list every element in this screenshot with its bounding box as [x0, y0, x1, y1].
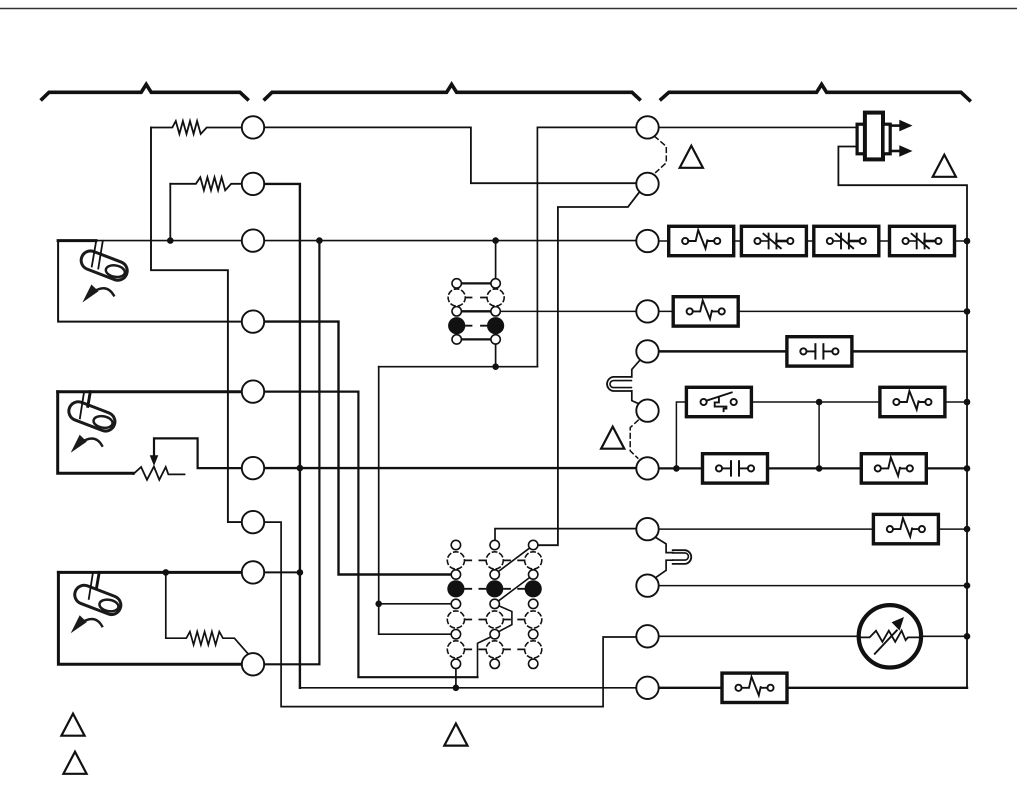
- row R3: NC contact box 4: [890, 226, 955, 255]
- mercury switch 3 rotation arrow: [71, 615, 102, 633]
- node: right bus row R9: [964, 582, 971, 589]
- plug arrow 1: [890, 124, 900, 127]
- wire: thermostat loop 2 left/bottom: [58, 392, 134, 474]
- plug connector left blade: [857, 124, 865, 154]
- wire: terminal 5 riser down around to relay grid 2: [264, 392, 477, 678]
- wire: terminal 2 riser down to common bottom row: [264, 184, 300, 688]
- wire: row R net to terminal 3: [96, 240, 242, 242]
- mercury switch 3 capsule: [72, 583, 124, 618]
- terminal R5: [636, 340, 658, 362]
- wire: terminal 7 to terminal R10 (bottom route): [264, 522, 636, 707]
- lamp 1 wire from terminal R5: [632, 360, 641, 405]
- wire: row Y terminal 6 to terminal R7: [264, 467, 636, 469]
- brace 1: [42, 84, 248, 99]
- node: right bus row R3: [964, 238, 971, 245]
- row R3: NC contact box 2: [741, 226, 806, 255]
- terminal 2: [242, 173, 264, 195]
- grid1 mid bar: [461, 310, 491, 312]
- wiper wire to terminal 6: [154, 438, 241, 468]
- row R7: heater box: [861, 454, 926, 483]
- mercury switch 1 electrodes: [92, 241, 103, 269]
- page top rule: [0, 8, 1017, 10]
- node: mid branch row R7: [816, 465, 823, 472]
- row R8: heater box: [873, 514, 938, 543]
- lamp 1 (indicator light): [607, 377, 631, 391]
- grid1 drop from row R: [495, 241, 497, 279]
- row R6: heater box right: [880, 387, 945, 416]
- row R8 wire: [659, 528, 967, 530]
- lamp 2 wire from terminal R8: [656, 537, 673, 577]
- wire: terminal 1 to right column (row W): [264, 127, 636, 183]
- mercury switch 2 capsule: [66, 399, 118, 434]
- node: right bus row R6: [964, 399, 971, 406]
- resistor R3 branch with diagonal to terminal 9: [166, 572, 248, 653]
- terminal R4: [636, 300, 658, 322]
- row R3: heater box: [669, 226, 734, 255]
- row R3: NC contact box 3: [814, 226, 879, 255]
- callout triangle 3: [601, 427, 624, 449]
- terminal R10: [636, 625, 658, 647]
- callout triangle 6: [444, 724, 467, 746]
- terminal 6: [242, 457, 264, 479]
- row R6 wires and switch box: [676, 402, 967, 468]
- callout triangle 1 (top right): [933, 155, 956, 177]
- grid1 bottom drop to bus: [495, 344, 497, 367]
- node: switch3 resistor tap: [163, 569, 170, 576]
- row R11 wire: [659, 687, 967, 689]
- grid2 actuator dashes row3: [465, 619, 524, 621]
- dashed option arc R6-R7: [630, 420, 638, 458]
- wire: thermostat loop 1 (left vertical + bottom to terminal 4): [58, 241, 242, 322]
- grid1 open contacts: [448, 289, 465, 306]
- wire: switch3 top to terminal 8: [58, 571, 241, 574]
- grid1 left pins: [452, 279, 461, 288]
- terminal R7: [636, 457, 658, 479]
- wire: grid2 linkage riser: [478, 637, 491, 677]
- wire: thermostat loop 2 top: [58, 390, 242, 393]
- grid2 actuator dashes row4: [465, 648, 524, 650]
- node: right bus row R10: [964, 633, 971, 640]
- row R5: capacitor contact box: [787, 337, 852, 366]
- mercury switch 2 electrodes: [80, 392, 84, 418]
- wire row R3 segments: [659, 240, 967, 242]
- node: common riser x terminal 8: [297, 569, 304, 576]
- node: common riser x row Y: [297, 465, 304, 472]
- callout triangle 2: [680, 146, 703, 168]
- terminal 5: [242, 380, 264, 402]
- grid2 actuator dashes row2: [465, 588, 524, 590]
- grid2 open contacts row3: [447, 611, 464, 628]
- row R7 wires: [659, 467, 967, 469]
- wire: switch1 top segment (thick part): [58, 239, 96, 242]
- grid1 closed contacts: [448, 317, 465, 334]
- callout triangle 5: [63, 752, 86, 774]
- brace 2: [265, 84, 640, 99]
- node: right bus row R4: [964, 308, 971, 315]
- terminal 4: [242, 310, 264, 332]
- rheostat arrow: [875, 630, 897, 653]
- grid2 left bottom drop: [455, 669, 457, 688]
- wire: terminal 9 riser to row R: [264, 241, 320, 665]
- grid1 actuator dashes: [466, 298, 487, 326]
- terminal 8: [242, 561, 264, 583]
- wire: R1 left drop to bus: [151, 128, 241, 523]
- rheostat internal resistor: [859, 631, 921, 642]
- wire: thermostat loop 3: [58, 572, 241, 664]
- node: R2 anticipator junction: [167, 237, 174, 244]
- terminal 1: [242, 116, 264, 138]
- wire: terminal R1 to plug: [659, 126, 859, 128]
- potentiometer (adjustable anticipator): [133, 467, 184, 480]
- rheostat (motor) circle: [859, 605, 921, 667]
- mercury switch 2 rotation arrow: [71, 435, 102, 453]
- terminal R3: [636, 230, 658, 252]
- wire: R2 drop to row R: [169, 184, 171, 241]
- mercury switch 3 electrodes: [89, 573, 93, 599]
- terminal R1: [636, 116, 658, 138]
- terminal 9: [242, 653, 264, 675]
- grid1 bottom bar: [461, 338, 491, 340]
- wire: terminal R2 chain down to grid2 right-top: [538, 192, 640, 545]
- row R11: heater box: [722, 673, 787, 702]
- node: right bus row R7: [964, 465, 971, 472]
- terminal R8: [636, 518, 658, 540]
- lamp 2 (indicator light): [673, 550, 692, 564]
- mercury switch 1 rotation arrow: [82, 285, 113, 303]
- dashed option arc R1-R2: [655, 136, 667, 172]
- node: grid1 bus: [492, 363, 499, 370]
- wire: grid1 bus across: [379, 366, 538, 368]
- switch box (system sw): [686, 387, 751, 416]
- plug connector body: [865, 113, 883, 160]
- terminal R9: [636, 574, 658, 596]
- terminal 3: [242, 229, 264, 251]
- grid2 column B pins: [490, 540, 499, 549]
- brace 3: [661, 84, 969, 100]
- terminal R11: [636, 677, 658, 699]
- row R5 wire: [659, 350, 966, 353]
- wiper arrowhead: [150, 455, 159, 466]
- row R10 wire: [659, 635, 967, 637]
- node: terminal9 riser on row R: [316, 237, 323, 244]
- terminal R6: [636, 399, 658, 421]
- wire: common bottom row to terminal R11: [300, 687, 636, 689]
- row R4 wire: [659, 310, 967, 312]
- wire: terminal 8 stub to common riser: [264, 571, 300, 573]
- wire: row from terminal 3 to terminal R3: [264, 240, 636, 242]
- wire: terminal 4 riser down to relay grid 2: [264, 322, 451, 575]
- node: grid2 bottom pin on common row: [453, 685, 460, 692]
- grid2 column A pins: [451, 540, 460, 549]
- grid1 right pins: [491, 279, 500, 288]
- row R9 wire: [659, 585, 967, 587]
- grid2 open contacts row4: [447, 641, 464, 658]
- grid2 column C pins: [529, 540, 538, 549]
- grid2 actuator dashes row1: [465, 559, 524, 561]
- terminal 7: [242, 511, 264, 533]
- grid1 top bar: [461, 282, 491, 284]
- node: right bus row R8: [964, 526, 971, 533]
- grid2 linkage zigzag: [499, 606, 512, 632]
- wire: bus drop to grid2 pins: [379, 367, 451, 635]
- wire: riser from W row to grid1 bus: [537, 127, 636, 366]
- row R7: capacitor contact box: [703, 454, 768, 483]
- wire: grid1 to terminal R4: [500, 310, 636, 312]
- plug arrow 2: [890, 150, 900, 153]
- node: switch branch lower left: [673, 465, 680, 472]
- grid2 linkage diagonal 1: [499, 548, 529, 571]
- wire: plug return to right bus: [838, 147, 967, 688]
- grid2 open contacts row1: [447, 552, 464, 569]
- callout triangle 4: [61, 714, 84, 736]
- grid2 linkage diagonal 2: [499, 578, 529, 601]
- plug connector right blade: [883, 124, 890, 154]
- row R4: heater box: [673, 297, 738, 326]
- node: grid1 tap on row R: [492, 237, 499, 244]
- grid2 closed contacts: [447, 580, 464, 597]
- node: grid2 pin bus: [375, 601, 382, 608]
- grid2 mid-top feed from terminal R8 row: [495, 529, 636, 541]
- mercury switch 1 capsule: [78, 248, 130, 283]
- node: mid branch row R6: [816, 399, 823, 406]
- resistor R1 (heat anticipator top): [151, 121, 242, 134]
- terminal R2: [636, 173, 658, 195]
- resistor R2 (second anticipator): [170, 177, 242, 190]
